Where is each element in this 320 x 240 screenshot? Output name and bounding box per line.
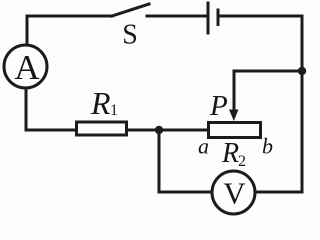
wire junction down to bottom bbox=[158, 130, 161, 192]
wire bottom to voltmeter bbox=[159, 191, 211, 194]
svg-text:R: R bbox=[221, 138, 239, 169]
battery short plate bbox=[217, 10, 220, 25]
wire left vertical top (corner to ammeter) bbox=[26, 16, 29, 45]
wire ammeter bottom to left corner bbox=[25, 89, 28, 130]
wire R1 to junction bbox=[128, 129, 159, 132]
wire wiper vertical down to arrow bbox=[233, 71, 236, 111]
battery long plate bbox=[207, 3, 210, 33]
wire wiper horizontal from right junction bbox=[234, 70, 302, 73]
wire right vertical bbox=[301, 16, 304, 192]
wire left corner to R1 bbox=[26, 129, 75, 132]
svg-text:a: a bbox=[198, 134, 209, 159]
svg-text:A: A bbox=[14, 48, 40, 87]
ammeter A meter circle bbox=[4, 45, 47, 88]
svg-text:R: R bbox=[90, 85, 111, 121]
rheostat R2 box bbox=[209, 123, 261, 138]
wire top-left from corner to switch bbox=[27, 15, 112, 18]
svg-text:V: V bbox=[223, 176, 246, 211]
svg-text:2: 2 bbox=[238, 153, 246, 170]
wire battery to top-right corner bbox=[218, 15, 302, 18]
switch S blade bbox=[112, 4, 149, 16]
node junction dot R1-R2 bbox=[155, 126, 163, 134]
wire voltmeter to bottom-right corner bbox=[256, 191, 302, 194]
svg-text:S: S bbox=[122, 20, 138, 51]
wiper P arrowhead bbox=[229, 110, 239, 122]
svg-text:P: P bbox=[209, 90, 228, 122]
node junction dot right bbox=[298, 67, 306, 75]
wire junction to R2 a terminal bbox=[159, 129, 208, 132]
wire switch right contact to battery bbox=[147, 15, 206, 18]
svg-text:b: b bbox=[262, 134, 273, 159]
voltmeter V meter circle bbox=[212, 171, 255, 214]
resistor R1 box bbox=[77, 122, 127, 135]
svg-text:1: 1 bbox=[110, 102, 118, 119]
